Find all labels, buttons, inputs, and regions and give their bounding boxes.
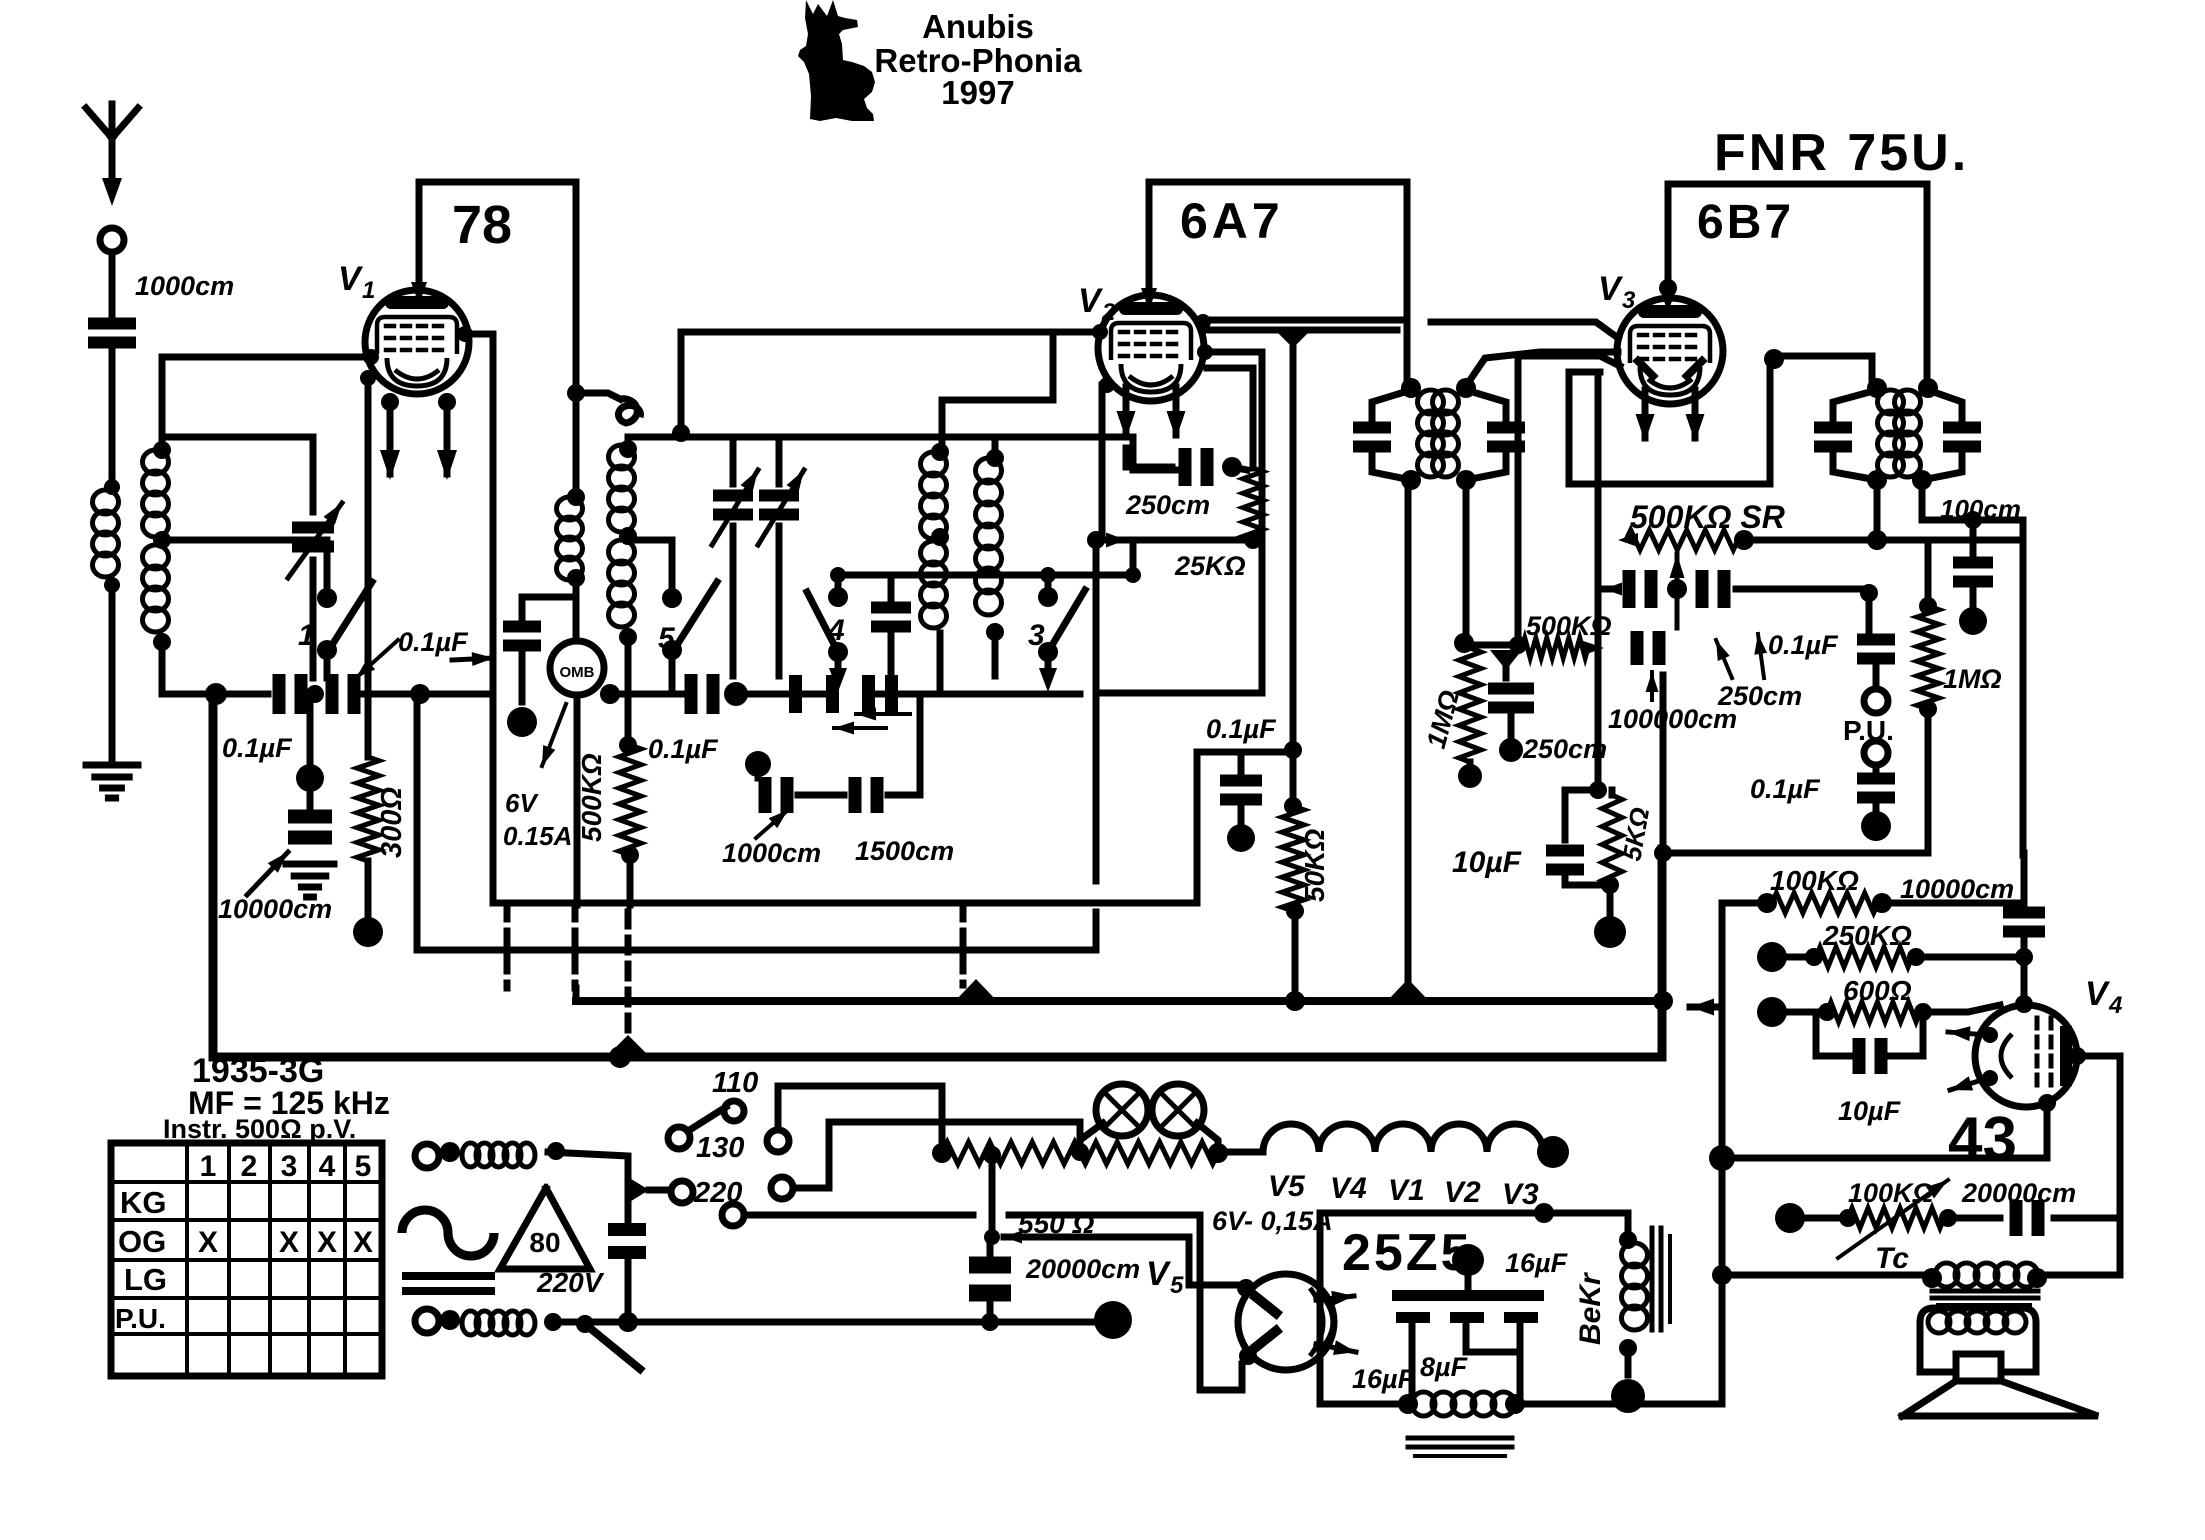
capacitor C33 16uF: [1504, 1312, 1538, 1323]
speaker magnet: [1956, 1354, 2001, 1381]
switch circle 220: [671, 1181, 693, 1203]
node 10000cm tap: [296, 764, 324, 792]
IFT2 primary coil: [1878, 390, 1904, 414]
wire coupling to 0.1uF: [1736, 586, 1869, 593]
wire aux to V5 lower: [1009, 1215, 1242, 1390]
svg-text:220V: 220V: [536, 1267, 605, 1298]
node R1 bottom blob: [365, 861, 372, 920]
dashed gang link x575: [572, 905, 579, 988]
wire IFT1 sec top to V3: [1466, 352, 1618, 386]
wire y575 right corner: [1130, 540, 1137, 575]
bus AVC y332 left: [681, 329, 1098, 336]
capacitor C27 10uF (bypass): [1813, 1012, 1820, 1056]
capacitor C32 8uF: [1450, 1312, 1484, 1323]
resistor R4 50Kohm: [1282, 806, 1304, 911]
switch S3: [1048, 590, 1085, 652]
svg-text:X: X: [317, 1226, 337, 1259]
wire bus694 mid: [355, 691, 493, 698]
node 1000cm blob: [745, 751, 771, 777]
IFT1 secondary cap C16: [1487, 422, 1525, 434]
pilot lamp 1: [1096, 1084, 1148, 1136]
wire choke bottom to cap: [522, 594, 576, 601]
wire S1 bottom stub: [324, 658, 331, 678]
svg-text:0.1µF: 0.1µF: [648, 734, 719, 764]
bus AVC y330 mid: [1203, 327, 1397, 334]
resistor R1 300ohm: [357, 757, 379, 861]
wire S1 top link: [324, 540, 331, 590]
node V2 grid left: [1092, 324, 1108, 340]
wire L4 bottom to R2: [625, 637, 632, 745]
wire varcap to padder mid: [310, 560, 317, 678]
capacitor C17 250cm: [1503, 662, 1510, 678]
capacitor C10 (osc pad): [871, 602, 911, 614]
OPT primary coil: [1935, 1263, 1958, 1287]
wire IFT2 sec bottom: [1922, 480, 2023, 520]
antenna: [86, 108, 112, 138]
svg-text:4: 4: [827, 614, 845, 647]
dashed gang link x507: [504, 905, 511, 988]
wire V3 frame below: [1569, 359, 1770, 484]
svg-text:20000cm: 20000cm: [1025, 1254, 1140, 1284]
wire choke A right: [548, 1152, 628, 1224]
wire C7 stems: [776, 437, 783, 484]
wire R9 left: [1722, 900, 1767, 907]
node C14 blob: [1238, 804, 1245, 822]
heater arrows V1: [381, 393, 399, 411]
coil L5b: [921, 541, 947, 565]
wire x1518 avc drop: [1515, 356, 1522, 645]
wire grid drop x162: [159, 357, 166, 448]
wire OPT top left: [1722, 1272, 1932, 1279]
node L2 tap: [153, 531, 171, 549]
svg-text:2: 2: [241, 1150, 258, 1183]
svg-text:P.U.: P.U.: [115, 1303, 166, 1334]
wire IFT2 prim top: [1869, 356, 1876, 388]
switch S1: [317, 588, 337, 608]
wire right bus down: [2020, 520, 2027, 855]
V5 anode arrows: [1316, 1296, 1354, 1300]
svg-text:100KΩ: 100KΩ: [1770, 865, 1859, 896]
mains terminal A: [415, 1144, 439, 1168]
svg-text:4: 4: [319, 1150, 336, 1183]
svg-text:250cm: 250cm: [1522, 734, 1607, 764]
resistor R12 100Kohm Tc: [1775, 1203, 1805, 1233]
bus junction x620 lower: [609, 1046, 631, 1068]
tube V2 (6A7): [1098, 295, 1204, 401]
capacitor C25 10uF: [1565, 787, 1598, 794]
wire OPT right: [2037, 1272, 2120, 1279]
wire SR to IFT2: [1744, 537, 2023, 544]
tube V3 (6B7): [1617, 298, 1723, 404]
choke core: [1408, 1436, 1512, 1441]
node R6 left: [1490, 650, 1522, 670]
capacitor C13 250cm: [1123, 448, 1130, 467]
svg-text:6V: 6V: [505, 788, 539, 818]
capacitor C14 0.1uF: [1238, 752, 1245, 774]
wire R5/C17 bottoms: [1467, 762, 1474, 772]
svg-text:0.15A: 0.15A: [503, 821, 572, 851]
arrows under padder: [834, 726, 886, 730]
wire y575 tap: [836, 572, 1133, 579]
node R2 bottom: [621, 846, 639, 864]
svg-text:Tc: Tc: [1875, 1242, 1909, 1275]
variable capacitor C7: [759, 490, 799, 502]
svg-text:3: 3: [281, 1150, 298, 1183]
node curl junction: [567, 384, 585, 402]
label box 6A7: [1149, 179, 1407, 186]
node AVC x1293: [1275, 330, 1311, 348]
dashed gang link x963: [960, 905, 967, 985]
wire C12 right up: [888, 792, 920, 799]
capacitor C28 20000cm: [1948, 1215, 2000, 1222]
wire grid V1 (y357): [162, 354, 366, 361]
svg-text:6V- 0,15A: 6V- 0,15A: [1212, 1206, 1333, 1236]
antenna terminal: [100, 228, 124, 252]
wire IFT1 prim down: [1405, 480, 1412, 1001]
svg-text:300Ω: 300Ω: [376, 787, 408, 858]
coil L4b osc: [609, 540, 635, 564]
svg-text:0.1µF: 0.1µF: [1206, 714, 1277, 744]
wire V3 right to IFT2: [1774, 353, 1872, 360]
svg-text:V2: V2: [1444, 1176, 1481, 1209]
bus junction x628: [606, 1035, 650, 1057]
wire R2 to box bottom: [627, 855, 634, 905]
svg-text:KG: KG: [120, 1185, 167, 1220]
heater arrows V3: [1642, 390, 1649, 438]
wire osc drop x681: [678, 332, 685, 433]
capacitor C30 20000cm: [987, 1237, 994, 1255]
bus694 mid segments: [610, 691, 683, 698]
wire 0.1uF corner: [1197, 749, 1290, 756]
ground (antenna): [86, 762, 138, 769]
svg-text:20000cm: 20000cm: [1961, 1178, 2076, 1208]
ground (C4): [286, 861, 334, 868]
mains terminal B: [415, 1309, 439, 1333]
wire C21 left stub: [1598, 586, 1615, 593]
svg-text:43: 43: [1948, 1105, 2017, 1174]
bus694 right segment: [898, 691, 1080, 698]
Tc arrow: [1838, 1180, 1948, 1258]
wire bus694 left: [162, 691, 268, 698]
capacitor C9 padder right pair: [789, 675, 802, 713]
resistor R11 600ohm: [1757, 997, 1787, 1027]
node L2 bottom: [153, 633, 171, 651]
wire S3 bottom arrow: [1045, 660, 1052, 670]
heater arrows V4: [1982, 1027, 1998, 1043]
svg-text:250cm: 250cm: [1717, 681, 1802, 711]
diode plates V3: [1638, 361, 1653, 376]
wire box bottom: [1320, 1401, 1408, 1408]
svg-text:V4: V4: [1330, 1172, 1367, 1205]
wire L6 top: [992, 437, 999, 458]
node heater end: [1537, 1136, 1569, 1168]
capacitor C12 1500cm: [849, 777, 862, 813]
svg-text:10µF: 10µF: [1452, 846, 1522, 879]
svg-text:50KΩ: 50KΩ: [1299, 829, 1330, 902]
svg-text:10000cm: 10000cm: [218, 894, 332, 924]
wire x2024 lower: [2021, 938, 2028, 1005]
wire IFT1 sec bottom down: [1463, 480, 1470, 643]
wire x1598 down: [1595, 372, 1602, 790]
wire y540 cath: [1096, 537, 1253, 544]
label box 78: [419, 179, 576, 186]
mains choke A: [462, 1143, 479, 1167]
OPT core: [1932, 1289, 2038, 1294]
OPT secondary + speaker frame: [1920, 1308, 2036, 1372]
coil L6: [976, 458, 1002, 483]
wire R3 top: [1232, 467, 1247, 470]
svg-text:8µF: 8µF: [1420, 1352, 1469, 1382]
resistor R7 1Mohm: [1919, 597, 1937, 615]
svg-text:OG: OG: [118, 1224, 166, 1259]
wire V1 gridreturn to R1: [365, 380, 372, 757]
wire V3 input lower: [1518, 356, 1620, 366]
svg-text:0.1µF: 0.1µF: [222, 733, 293, 763]
svg-text:V: V: [338, 260, 364, 298]
resistor R10 250Kohm: [1757, 942, 1787, 972]
svg-text:X: X: [279, 1226, 299, 1259]
bus junction x976: [955, 979, 997, 1001]
svg-text:1: 1: [298, 619, 315, 652]
IFT1 primary cap C15: [1353, 422, 1391, 434]
DC symbol: [406, 1272, 491, 1280]
wire L1 to ground: [109, 588, 116, 760]
svg-text:6A7: 6A7: [1180, 193, 1284, 249]
svg-text:X: X: [353, 1226, 373, 1259]
wire S3 top: [1045, 575, 1052, 590]
coil L5a: [921, 452, 947, 476]
wire IFT2 prim bottom: [1874, 480, 1881, 540]
svg-text:3: 3: [1028, 619, 1045, 652]
switch circle 110: [724, 1101, 744, 1121]
wire S4 top: [835, 575, 842, 590]
OPT secondary coil: [1928, 1311, 1950, 1333]
bus B- lower y1057: [213, 694, 1662, 1057]
capacitor C20 100cm: [1970, 520, 1977, 553]
wire y853: [1663, 850, 1928, 857]
wire 1M top: [1925, 540, 1932, 606]
capacitor C3 padder (0.1uF series pair): [273, 674, 286, 714]
wire V2 cath pin: [1099, 377, 1115, 393]
svg-text:1000cm: 1000cm: [722, 838, 821, 868]
heater arrows V2: [1123, 387, 1130, 435]
svg-text:10000cm: 10000cm: [1900, 874, 2014, 904]
coil L4a osc: [609, 445, 635, 469]
capacitor C5 0.1uF (screen): [503, 621, 541, 633]
wire grid-cap curl: [576, 393, 620, 399]
wire V4 cathode down: [2038, 1094, 2056, 1112]
wire choke to bus: [1515, 1401, 1722, 1408]
svg-text:V: V: [1146, 1255, 1172, 1293]
svg-text:LG: LG: [124, 1262, 167, 1297]
wire R4 to bus: [1292, 911, 1299, 1001]
svg-text:FNR 75U.: FNR 75U.: [1714, 124, 1969, 182]
wire L2 bottom to bus694: [159, 642, 166, 694]
wire lamp left: [1080, 1123, 1103, 1150]
IFT2 secondary coil: [1895, 390, 1921, 414]
terminal P.U. bottom: [1864, 741, 1888, 765]
wire y437 corner right: [1130, 437, 1137, 470]
mains choke B: [462, 1311, 479, 1335]
waveband table: [111, 1143, 382, 1376]
variable capacitor C6: [713, 490, 753, 502]
svg-text:16µF: 16µF: [1505, 1248, 1569, 1278]
annotation arrow 6V 0.15A: [542, 704, 566, 766]
mains switch blade: [585, 1324, 640, 1369]
svg-text:1: 1: [362, 277, 375, 304]
IFT2 secondary cap C19: [1943, 422, 1981, 434]
wire L5 top up: [939, 400, 946, 452]
switch arm 130-110: [688, 1107, 726, 1131]
capacitor C26 10000cm: [2003, 907, 2045, 919]
sine symbol: [402, 1210, 494, 1256]
capacitor C22 100000cm: [1631, 631, 1644, 665]
wire 550 tap down: [989, 1160, 996, 1237]
junction triangle 220: [628, 1177, 649, 1203]
svg-text:V: V: [2085, 975, 2111, 1013]
wire R9 right to cap: [1882, 900, 2024, 907]
filter choke L7: [1412, 1392, 1435, 1416]
svg-text:100KΩ: 100KΩ: [1848, 1178, 1934, 1208]
switch circle right A: [767, 1130, 789, 1152]
field coil BeKr: [1625, 1213, 1632, 1240]
wire S5 bottom stub: [669, 658, 676, 690]
wire x1293 down: [1290, 330, 1297, 806]
speaker cone: [1902, 1381, 2098, 1416]
coil L3 RF choke (screen): [573, 393, 580, 497]
svg-text:130: 130: [696, 1132, 744, 1164]
bus junction x1663: [1653, 991, 1673, 1011]
svg-text:5: 5: [1170, 1272, 1184, 1299]
resistor R2 500Kohm: [619, 745, 641, 855]
vertical feed x1722: [1719, 903, 1726, 1158]
node L6 bottom: [986, 623, 1004, 641]
resistor R9 100Kohm: [1757, 893, 1777, 913]
tube V5 (25Z5): [1238, 1274, 1334, 1370]
wire V1 plate to x495: [469, 331, 493, 338]
capacitor C4 10000cm to ground: [307, 694, 314, 808]
svg-text:6B7: 6B7: [1697, 196, 1794, 249]
bus corner x576: [573, 988, 580, 1001]
wire x1663 down: [1660, 675, 1667, 853]
svg-text:10µF: 10µF: [1838, 1096, 1902, 1126]
bus junction x1408: [1387, 979, 1429, 1001]
bus B- upper y1001: [576, 997, 1663, 1005]
svg-text:1: 1: [200, 1150, 217, 1183]
wire C1 to coil L1: [109, 346, 116, 490]
electrolytic common bar: [1392, 1290, 1544, 1301]
svg-text:0.1µF: 0.1µF: [1750, 774, 1821, 804]
coil L2a (antenna secondary upper): [143, 450, 169, 474]
svg-text:1997: 1997: [941, 74, 1014, 111]
svg-text:0.1µF: 0.1µF: [398, 627, 469, 657]
IFT2 primary cap C18: [1814, 422, 1852, 434]
wire choke to OMB: [573, 578, 580, 641]
svg-text:1000cm: 1000cm: [135, 271, 234, 301]
wire V2 anode box: [1102, 352, 1262, 693]
wire C5 to blob: [519, 650, 526, 702]
svg-text:1500cm: 1500cm: [855, 836, 954, 866]
Anubis logo: [798, 0, 875, 121]
SR wiper arrow: [1675, 554, 1680, 628]
svg-text:25Z5: 25Z5: [1342, 1224, 1473, 1282]
svg-text:X: X: [198, 1226, 218, 1259]
svg-text:Instr. 500Ω p.V.: Instr. 500Ω p.V.: [163, 1114, 356, 1144]
IFT1 primary coil: [1418, 390, 1444, 414]
svg-text:80: 80: [529, 1227, 560, 1258]
capacitor C24 0.1uF: [1873, 765, 1880, 772]
wire x1102 down: [1093, 540, 1100, 881]
svg-text:0.1µF: 0.1µF: [1768, 630, 1839, 660]
svg-text:V5: V5: [1268, 1170, 1306, 1203]
resistor R6 500Kohm: [1522, 638, 1588, 658]
wire V5 plate feed: [1004, 1231, 1022, 1244]
pilot lamp 2: [1152, 1084, 1204, 1136]
svg-text:250cm: 250cm: [1125, 490, 1210, 520]
svg-text:110: 110: [712, 1067, 758, 1099]
svg-text:V: V: [1598, 270, 1624, 308]
wire anode top into V3: [1659, 279, 1677, 297]
coil L2b (antenna secondary lower): [143, 545, 169, 569]
wire S5 top: [669, 540, 676, 590]
wire antenna to C1: [109, 252, 116, 316]
capacitor C1 1000cm (antenna): [88, 318, 136, 330]
wire anode top into V1: [411, 282, 427, 304]
mains cap C29: [608, 1223, 646, 1236]
capacitor C31 16uF: [1396, 1312, 1430, 1323]
wire x2024 upper: [2021, 853, 2028, 905]
capacitor C21 coupling pair: [1623, 570, 1636, 608]
switch circle 130: [668, 1127, 690, 1149]
transformer triangle 80: [500, 1188, 590, 1269]
svg-text:78: 78: [452, 195, 512, 255]
svg-text:5: 5: [355, 1150, 372, 1183]
svg-text:500KΩ: 500KΩ: [576, 753, 607, 842]
resistor R3 25Kohm: [1207, 368, 1253, 468]
potentiometer SR 500Kohm: [1626, 530, 1738, 550]
node L4 tap: [619, 527, 637, 545]
switch S5: [662, 588, 682, 608]
wire L5 bottom: [937, 633, 944, 694]
wire V4 anode right: [2068, 1047, 2086, 1065]
svg-text:250KΩ: 250KΩ: [1822, 920, 1912, 951]
resistor R8 5Kohm: [1602, 795, 1622, 885]
svg-text:500KΩ SR: 500KΩ SR: [1630, 499, 1785, 535]
wire right A up: [778, 1086, 942, 1145]
bus AVC y322 right: [1431, 322, 1618, 338]
wire OMB down: [574, 695, 581, 905]
svg-text:25KΩ: 25KΩ: [1174, 551, 1246, 581]
wire lamp right: [1197, 1123, 1218, 1150]
switch circle right B: [771, 1177, 793, 1199]
wire C10 stems: [888, 575, 895, 600]
wire 1M link: [1464, 642, 1518, 649]
svg-text:5: 5: [658, 622, 676, 655]
label box 6B7: [1668, 181, 1927, 188]
wire y437 long: [681, 434, 1133, 441]
wire aux circle to V5: [744, 1212, 973, 1219]
wire cath y949: [417, 694, 1096, 950]
IFT1 secondary coil: [1433, 390, 1459, 414]
svg-text:Anubis: Anubis: [922, 8, 1034, 45]
wire V2 right pins: [1195, 314, 1211, 330]
wire C6 stems: [730, 437, 737, 484]
V5 pins: [1237, 1279, 1255, 1297]
switch circle aux: [722, 1204, 744, 1226]
node 1M junction: [1454, 633, 1474, 653]
svg-text:OMB: OMB: [560, 664, 595, 681]
heater chain humps: [1263, 1124, 1543, 1152]
